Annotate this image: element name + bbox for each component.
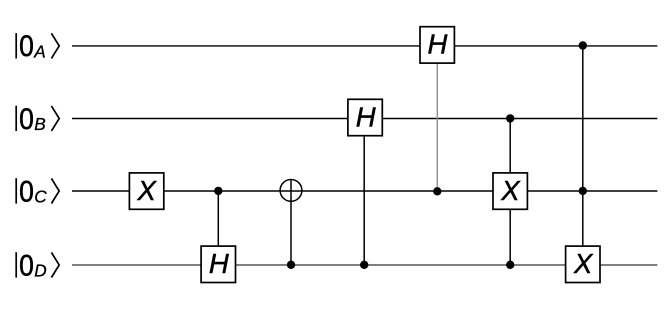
wire qubit A xyxy=(72,45,657,47)
svg-text:0: 0 xyxy=(19,249,34,282)
control dot col4 on D xyxy=(360,261,368,269)
gate X on D (col7) xyxy=(566,246,600,282)
wire control link col2 C to H(D) xyxy=(217,191,219,246)
control dot col3 on D xyxy=(287,261,295,269)
control dot col7 on C xyxy=(579,187,587,195)
gate X1 on C xyxy=(129,173,163,209)
wire qubit B xyxy=(72,118,657,120)
control dot col6 on B xyxy=(506,114,514,122)
CNOT target on C (col3) xyxy=(280,180,302,202)
control dot col2 on C xyxy=(214,187,222,195)
node ket label |0_D> xyxy=(16,249,59,282)
svg-text:0: 0 xyxy=(19,175,34,208)
svg-text:X: X xyxy=(573,248,594,279)
node ket label |0_B> xyxy=(16,102,59,135)
wire control link col3 CNOT target C to D xyxy=(290,179,292,265)
svg-text:C: C xyxy=(34,187,47,207)
control dot col7 on A xyxy=(579,41,587,49)
gate H on A (col5) xyxy=(420,27,454,63)
wire control link col6 B to X(C) to D xyxy=(509,119,511,266)
svg-text:0: 0 xyxy=(19,30,34,63)
gate H on D (col2) xyxy=(201,246,235,282)
svg-text:H: H xyxy=(356,101,376,132)
wire control link col7 A to X(D) xyxy=(582,46,584,246)
node ket label |0_C> xyxy=(16,175,59,208)
svg-text:A: A xyxy=(33,42,45,62)
wire qubit D xyxy=(72,264,657,266)
svg-text:X: X xyxy=(500,175,521,206)
wire control link col5 H(A) to C xyxy=(436,62,438,191)
control dot col5 on C xyxy=(433,187,441,195)
svg-text:X: X xyxy=(137,175,158,206)
control dot col6 on D xyxy=(506,261,514,269)
gate H on B (col4) xyxy=(348,99,382,135)
node ket label |0_A> xyxy=(16,30,59,63)
svg-text:H: H xyxy=(209,248,229,279)
svg-text:0: 0 xyxy=(19,102,34,135)
svg-text:H: H xyxy=(428,29,448,60)
svg-text:B: B xyxy=(34,114,45,134)
wire qubit C xyxy=(72,190,657,192)
wire control link col4 H(B) to D xyxy=(363,136,365,265)
svg-text:D: D xyxy=(34,261,46,281)
gate X on C (col6) xyxy=(493,173,527,209)
